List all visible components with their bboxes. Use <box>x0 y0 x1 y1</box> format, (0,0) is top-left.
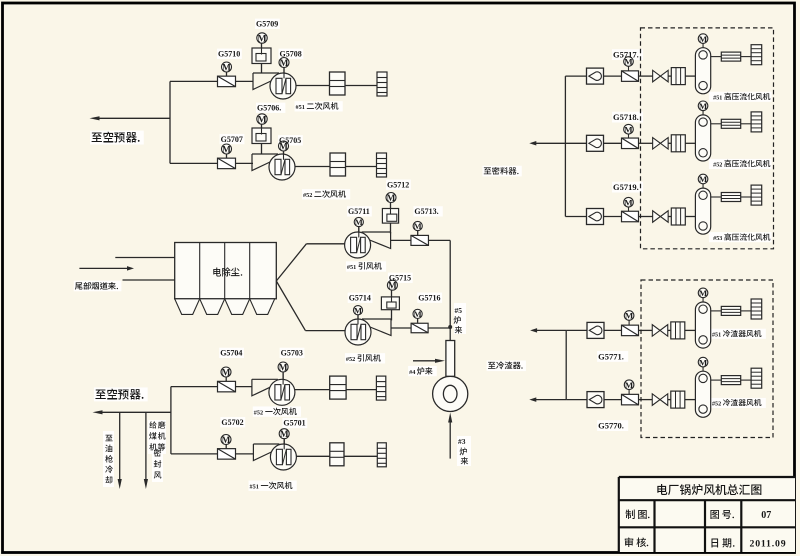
svg-text:G5711: G5711 <box>348 207 370 216</box>
svg-text:G5705: G5705 <box>279 136 301 145</box>
svg-text:M: M <box>699 288 708 298</box>
svg-text:M: M <box>222 63 231 73</box>
svg-text:M: M <box>624 197 633 207</box>
svg-text:枪: 枪 <box>104 454 113 464</box>
svg-text:封: 封 <box>154 459 162 469</box>
svg-text:M: M <box>222 368 231 378</box>
svg-text:却: 却 <box>105 475 113 485</box>
svg-text:煤: 煤 <box>148 431 157 441</box>
svg-text:M: M <box>387 194 396 204</box>
svg-text:G5770.: G5770. <box>598 421 624 431</box>
svg-text:M: M <box>280 430 289 440</box>
svg-text:07: 07 <box>761 510 771 521</box>
svg-text:机: 机 <box>158 431 167 441</box>
svg-text:G5771.: G5771. <box>598 351 624 361</box>
svg-text:电厂锅炉风机总汇图: 电厂锅炉风机总汇图 <box>656 483 762 497</box>
svg-text:G5704: G5704 <box>220 349 242 358</box>
svg-text:M: M <box>625 380 634 390</box>
svg-text:至冷渣器.: 至冷渣器. <box>488 361 524 371</box>
svg-text:M: M <box>699 101 708 111</box>
svg-text:来: 来 <box>455 325 464 335</box>
svg-text:G5713.: G5713. <box>414 207 438 216</box>
svg-text:G5716: G5716 <box>418 293 440 302</box>
svg-text:G5706.: G5706. <box>257 104 281 113</box>
svg-text:G5710: G5710 <box>218 50 240 59</box>
svg-text:审 核.: 审 核. <box>624 537 649 549</box>
svg-text:M: M <box>625 311 634 321</box>
svg-text:至空预器.: 至空预器. <box>91 132 140 145</box>
svg-text:M: M <box>222 436 231 446</box>
svg-text:#5: #5 <box>455 306 463 315</box>
svg-text:G5714: G5714 <box>349 294 371 303</box>
svg-text:M: M <box>699 174 708 184</box>
svg-text:冷: 冷 <box>105 465 113 475</box>
svg-text:G5707: G5707 <box>221 135 243 144</box>
svg-text:密: 密 <box>153 448 162 458</box>
svg-text:G5718.: G5718. <box>613 112 639 122</box>
svg-text:M: M <box>257 33 266 44</box>
svg-text:G5703: G5703 <box>281 349 303 358</box>
svg-text:M: M <box>279 363 288 373</box>
svg-text:G5715: G5715 <box>389 274 411 283</box>
svg-text:尾部烟道来.: 尾部烟道来. <box>75 281 119 291</box>
svg-text:M: M <box>414 221 422 231</box>
svg-text:G5708: G5708 <box>280 50 302 59</box>
svg-text:至空预器.: 至空预器. <box>95 388 144 401</box>
svg-text:日 期.: 日 期. <box>710 538 735 550</box>
svg-text:炉: 炉 <box>459 447 468 457</box>
svg-text:风: 风 <box>154 470 163 480</box>
svg-text:G5719.: G5719. <box>613 182 639 192</box>
svg-text:M: M <box>414 309 422 319</box>
svg-text:G5709: G5709 <box>256 20 278 29</box>
svg-text:M: M <box>257 114 266 125</box>
svg-text:M: M <box>355 217 363 227</box>
svg-text:至密料器.: 至密料器. <box>483 166 519 176</box>
svg-text:磨: 磨 <box>158 420 166 430</box>
svg-text:#3: #3 <box>458 437 466 446</box>
svg-text:炉: 炉 <box>453 315 462 325</box>
svg-text:G5712: G5712 <box>387 180 409 189</box>
svg-text:M: M <box>699 357 708 367</box>
svg-text:M: M <box>624 124 633 134</box>
svg-text:M: M <box>280 59 289 69</box>
svg-text:M: M <box>699 34 708 44</box>
svg-text:图 号.: 图 号. <box>710 509 735 521</box>
svg-text:制 图.: 制 图. <box>625 509 650 521</box>
svg-text:M: M <box>222 145 231 155</box>
svg-text:G5701: G5701 <box>283 419 305 428</box>
svg-text:油: 油 <box>105 444 113 454</box>
svg-text:至: 至 <box>105 433 113 443</box>
svg-text:来: 来 <box>461 456 470 466</box>
svg-text:G5702: G5702 <box>221 418 243 427</box>
svg-text:M: M <box>354 305 362 315</box>
svg-text:2011.09: 2011.09 <box>750 539 787 550</box>
svg-text:电除尘.: 电除尘. <box>212 266 243 277</box>
svg-text:G5717.: G5717. <box>613 50 639 60</box>
svg-text:M: M <box>388 282 397 292</box>
